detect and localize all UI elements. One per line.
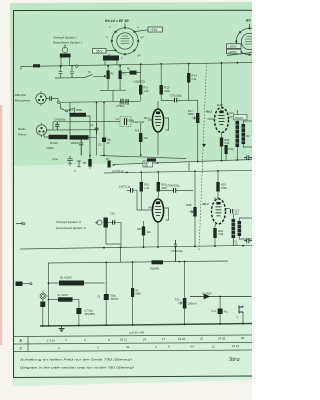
svg-text:2: 2 xyxy=(57,346,60,350)
adjacent page pink edge xyxy=(0,105,2,345)
capacitor C1 electrolytic xyxy=(98,101,111,155)
resistor R11 cathode row2 xyxy=(137,221,151,247)
svg-text:10 12: 10 12 xyxy=(120,338,127,342)
svg-text:10k: 10k xyxy=(144,136,149,140)
svg-text:S/300k: S/300k xyxy=(126,119,135,123)
svg-text:3,9k: 3,9k xyxy=(218,232,224,236)
wire stub C3a xyxy=(96,122,98,128)
capacitor C7 on grid wire xyxy=(116,99,125,108)
svg-text:8 9: 8 9 xyxy=(190,345,194,349)
ground bus xyxy=(40,324,252,327)
svg-text:1 3 5a: 1 3 5a xyxy=(47,339,55,343)
white label box TN1000 xyxy=(234,115,248,120)
svg-text:5,6k: 5,6k xyxy=(225,141,231,145)
tube V2 (Rö.2) dashed xyxy=(208,64,233,138)
connector X3 bottom xyxy=(40,291,49,299)
resistor R16 vertical xyxy=(157,172,168,197)
svg-text:24 26: 24 26 xyxy=(217,336,225,340)
svg-text:35 V: 35 V xyxy=(96,49,103,53)
table divider xyxy=(27,336,29,351)
junction triangle xyxy=(202,144,206,147)
tape head 1 symbol xyxy=(60,45,71,66)
wire top bus xyxy=(21,63,252,67)
svg-text:+10µF/25V: +10µF/25V xyxy=(133,81,146,84)
resistor R3 vertical input xyxy=(119,66,127,91)
svg-text:Soundhead System II: Soundhead System II xyxy=(56,226,86,230)
svg-text:E125C5: E125C5 xyxy=(203,293,213,296)
wire R chain xyxy=(44,134,97,138)
svg-text:x0,1µ: x0,1µ xyxy=(52,158,59,161)
svg-text:Rn 4129?: Rn 4129? xyxy=(58,294,69,297)
svg-text:C4: C4 xyxy=(116,117,120,121)
svg-text:560k: 560k xyxy=(136,293,142,296)
capacitor C2 series xyxy=(50,96,52,100)
svg-text:C11: C11 xyxy=(212,310,217,313)
svg-text:Schaltung im hellen Feld nur b: Schaltung im hellen Feld nur bei Gerät 7… xyxy=(20,358,132,362)
wire row1 lower bus xyxy=(104,170,252,173)
resistor R6 vertical xyxy=(108,161,116,168)
resistor R14 below tube V2 xyxy=(220,138,230,161)
component on bus near x130 xyxy=(122,67,141,74)
tube V3 (Rö.1b) xyxy=(148,197,168,248)
wire socket U15 to right edge xyxy=(227,53,252,56)
resistor R8 cathode xyxy=(135,123,148,156)
tube V4 (Rö.3) dashed xyxy=(212,198,230,228)
svg-text:+205V: +205V xyxy=(228,50,237,54)
svg-text:C8a/0,1µ: C8a/0,1µ xyxy=(119,103,130,106)
stereo linkage dashed line xyxy=(199,63,207,250)
green schematic page xyxy=(10,2,252,386)
svg-text:+200V: +200V xyxy=(228,45,237,49)
svg-text:250k lin: 250k lin xyxy=(188,303,197,306)
svg-text:47µ: 47µ xyxy=(224,311,229,314)
svg-text:Tonkopf System II: Tonkopf System II xyxy=(56,220,81,224)
svg-text:500k: 500k xyxy=(186,203,192,207)
35V supply box xyxy=(93,49,107,54)
small connector mark left edge row2 xyxy=(16,222,25,226)
contact circle on bus xyxy=(76,65,78,67)
svg-text:Microphone: Microphone xyxy=(15,99,30,103)
wire L2-L3 junction xyxy=(188,162,190,172)
wire pale section top line xyxy=(48,261,228,263)
resistor R7 between lines xyxy=(83,156,92,169)
svg-text:Tonkopf System I: Tonkopf System I xyxy=(53,36,77,40)
svg-text:g1: g1 xyxy=(138,53,142,57)
junction dots row2 bottom bus xyxy=(103,245,244,249)
R row numbers xyxy=(47,336,245,342)
resistor R20 on bus xyxy=(147,158,156,161)
+150V supply box xyxy=(148,27,163,32)
wire mic to C xyxy=(48,98,49,100)
ground symbol xyxy=(59,326,65,331)
wire to junction xyxy=(52,99,58,102)
capacitor C8a row1 left xyxy=(119,99,130,106)
svg-text:1M: 1M xyxy=(112,163,116,167)
capacitor to ground P1 left xyxy=(67,117,73,165)
svg-text:ca 6,3V~ 4W: ca 6,3V~ 4W xyxy=(129,331,144,335)
svg-text:12n: 12n xyxy=(235,213,240,216)
resistor Bn 41293 xyxy=(49,276,105,286)
tube V1 (Rö.1) xyxy=(144,101,169,155)
wire input mesh xyxy=(100,90,126,101)
frame border xyxy=(14,10,253,377)
wire grid line row1 xyxy=(60,101,140,102)
capacitor C2b on EQ line xyxy=(54,119,66,130)
+200V supply box xyxy=(227,44,242,49)
tube socket U15 (right, cut off) xyxy=(235,24,263,56)
svg-text:Phono: Phono xyxy=(18,133,27,137)
capacitor C13 row2 right xyxy=(231,209,240,216)
svg-text:350/385V: 350/385V xyxy=(85,313,96,316)
svg-text:220k: 220k xyxy=(164,89,170,93)
wire row1 bottom bus xyxy=(113,160,252,165)
resistor R2 vertical input xyxy=(107,66,115,91)
wire supply node xyxy=(48,284,50,326)
svg-text:12: 12 xyxy=(212,344,216,348)
svg-text:Diagram in the pale section on: Diagram in the pale section only for mod… xyxy=(20,366,134,370)
C row numbers xyxy=(57,344,239,350)
svg-text:2,2k: 2,2k xyxy=(192,77,198,81)
wire joining caps xyxy=(55,77,85,79)
svg-text:C15: C15 xyxy=(110,213,115,216)
svg-text:7N100: 7N100 xyxy=(235,116,244,120)
trimmer C4 dashed box xyxy=(116,117,145,127)
svg-text:8,2k: 8,2k xyxy=(229,148,234,151)
svg-text:R 8: R 8 xyxy=(135,129,140,133)
wire EQ line xyxy=(53,122,120,131)
microphone connector X1 xyxy=(36,91,48,106)
svg-text:18 20: 18 20 xyxy=(178,337,185,341)
junction dots row1 lower buses xyxy=(89,154,238,164)
resistor R15 on line xyxy=(150,258,165,271)
svg-text:1937/0,1µ: 1937/0,1µ xyxy=(119,186,131,189)
wire mid short line xyxy=(100,156,186,159)
resistor R14 vertical xyxy=(187,63,198,101)
capacitor C10 coupling row2 xyxy=(158,184,193,193)
capacitor C15 row2 input xyxy=(110,213,115,225)
table line 2 xyxy=(14,343,253,345)
svg-text:Rö.1: Rö.1 xyxy=(144,116,150,120)
svg-text:1:24: 1:24 xyxy=(233,243,238,246)
svg-text:6V: 6V xyxy=(107,141,110,145)
svg-text:C12: C12 xyxy=(229,112,234,115)
svg-text:220k: 220k xyxy=(221,186,227,190)
capacitor at right edge row2 xyxy=(244,238,252,243)
potentiometer P2 row1 xyxy=(188,106,199,162)
white label box R20/33k xyxy=(143,161,153,168)
svg-text:Rö.3: Rö.3 xyxy=(203,202,210,206)
capacitor C5 from bus x76 xyxy=(70,66,74,78)
output transformer T1 xyxy=(236,110,253,160)
switch S1 xyxy=(85,75,104,78)
svg-text:C?/0,033µ: C?/0,033µ xyxy=(170,94,183,98)
capacitor C9 row2 left xyxy=(119,186,148,211)
capacitor C6 electrolytic below connector xyxy=(40,299,45,326)
table line 3 xyxy=(14,350,253,352)
svg-text:Bn 41293: Bn 41293 xyxy=(60,276,72,280)
capacitor C8 coupling row1 xyxy=(161,94,198,107)
wire from line into supply xyxy=(48,263,50,284)
svg-text:EL95: EL95 xyxy=(214,198,220,201)
svg-text:g2: g2 xyxy=(141,35,145,39)
svg-text:C6/50µ: C6/50µ xyxy=(46,147,54,150)
potentiometer P3 row2 xyxy=(186,171,197,246)
svg-text:Radio: Radio xyxy=(18,127,26,131)
svg-text:10k: 10k xyxy=(147,230,152,234)
mains plug left edge xyxy=(16,282,33,287)
frame bottom xyxy=(14,376,253,378)
table line 1 xyxy=(14,335,253,337)
tube socket U14 (Rö.14 = EF 80) xyxy=(106,24,148,56)
svg-text:Rö: Rö xyxy=(246,19,251,23)
svg-text:C?9/0,033µ: C?9/0,033µ xyxy=(166,184,180,188)
resistor R9 vertical xyxy=(139,64,149,102)
resistor R27 vertical left xyxy=(131,262,142,326)
pale stereo section xyxy=(14,160,253,386)
svg-text:1,2k: 1,2k xyxy=(144,186,150,190)
resistor R4 horizontal xyxy=(49,132,71,145)
capacitor C10b on bus xyxy=(174,240,177,262)
svg-text:14: 14 xyxy=(143,337,147,341)
svg-text:P10: P10 xyxy=(175,299,180,302)
svg-text:Rö.2: Rö.2 xyxy=(206,110,213,114)
capacitor bars under C1 label xyxy=(95,128,99,134)
junction dots row2 upper bus xyxy=(126,170,219,173)
resistor R? near transformer xyxy=(225,145,234,160)
svg-text:a CY?0,1µ: a CY?0,1µ xyxy=(112,170,124,173)
svg-text:R15/4W: R15/4W xyxy=(150,268,160,271)
fuse on top bus xyxy=(33,64,40,67)
potentiometer P1 xyxy=(69,108,86,117)
tape head 2 symbol xyxy=(96,218,122,248)
contact symbol a xyxy=(237,306,244,325)
junction dots ground bus xyxy=(42,323,244,327)
svg-text:28: 28 xyxy=(240,336,245,340)
svg-text:C1: C1 xyxy=(98,143,102,147)
junction dots supply line xyxy=(48,261,186,301)
svg-text:2a: 2a xyxy=(125,345,130,349)
wire row2 bottom bus xyxy=(20,245,252,249)
capacitor at right edge row1 xyxy=(244,155,252,160)
svg-text:R11: R11 xyxy=(137,227,142,231)
svg-text:30/35V: 30/35V xyxy=(111,298,119,301)
potentiometer P10 xyxy=(175,262,197,325)
svg-text:Stra: Stra xyxy=(229,356,240,363)
vertical stub x120 head2 to supply line xyxy=(120,248,122,263)
small part x79 xyxy=(74,161,81,174)
+205V supply box xyxy=(227,49,242,54)
resistor R13 vertical xyxy=(160,64,171,101)
svg-text:22: 22 xyxy=(199,337,204,341)
wire phono to network xyxy=(48,129,96,131)
svg-text:R5/4W: R5/4W xyxy=(71,142,79,145)
svg-text:P 1 = 500k: P 1 = 500k xyxy=(69,108,82,112)
capacitor C5b vertical xyxy=(79,140,83,156)
diode E125C5 xyxy=(190,293,252,299)
node bus left end xyxy=(20,67,22,70)
capacitor C2 electrolytic xyxy=(97,283,119,326)
svg-text:EL95: EL95 xyxy=(217,104,223,107)
junction circle xyxy=(58,101,61,104)
wire C2 top to line xyxy=(105,262,107,283)
wire x96 vertical xyxy=(96,102,98,155)
paper background xyxy=(0,0,252,400)
svg-text:Soundhead System I: Soundhead System I xyxy=(53,41,82,45)
svg-text:C?Ф0,04µ: C?Ф0,04µ xyxy=(171,249,183,253)
svg-text:R7043: R7043 xyxy=(50,142,58,145)
socket U14 pin labels xyxy=(106,20,144,61)
resistor R5 horizontal xyxy=(70,132,92,145)
svg-text:Rö.14 = EF 80: Rö.14 = EF 80 xyxy=(105,19,128,23)
svg-text:C?=5000p: C?=5000p xyxy=(54,119,66,122)
resistor R10 vertical xyxy=(140,172,150,210)
node S1 out xyxy=(104,75,106,77)
capacitor C11 xyxy=(212,296,229,325)
svg-text:Rö.1: Rö.1 xyxy=(149,206,155,210)
erase head block xyxy=(103,56,119,66)
svg-text:Mikrofon: Mikrofon xyxy=(15,93,26,97)
capacitor C7 electrolytic xyxy=(76,300,95,326)
resistor R26 horizontal xyxy=(49,294,79,302)
junction dots top bus xyxy=(60,62,239,67)
switch S2 mic xyxy=(61,104,75,113)
svg-text:5,6k/0,5W: 5,6k/0,5W xyxy=(133,120,145,124)
wire P1 drops xyxy=(70,102,90,155)
svg-text:500k: 500k xyxy=(188,112,194,116)
resistor R19 vertical xyxy=(216,171,227,199)
svg-text:+15V: +15V xyxy=(150,28,158,32)
capacitor C3 from bus x60 xyxy=(59,66,63,78)
svg-text:1,2k: 1,2k xyxy=(144,89,150,93)
svg-text:17: 17 xyxy=(162,337,166,341)
svg-text:14 16: 14 16 xyxy=(232,344,239,348)
output transformer T2 xyxy=(232,214,253,247)
radio/phono connector X2 xyxy=(36,123,48,138)
resistor R22 below tube V4 xyxy=(213,228,224,246)
